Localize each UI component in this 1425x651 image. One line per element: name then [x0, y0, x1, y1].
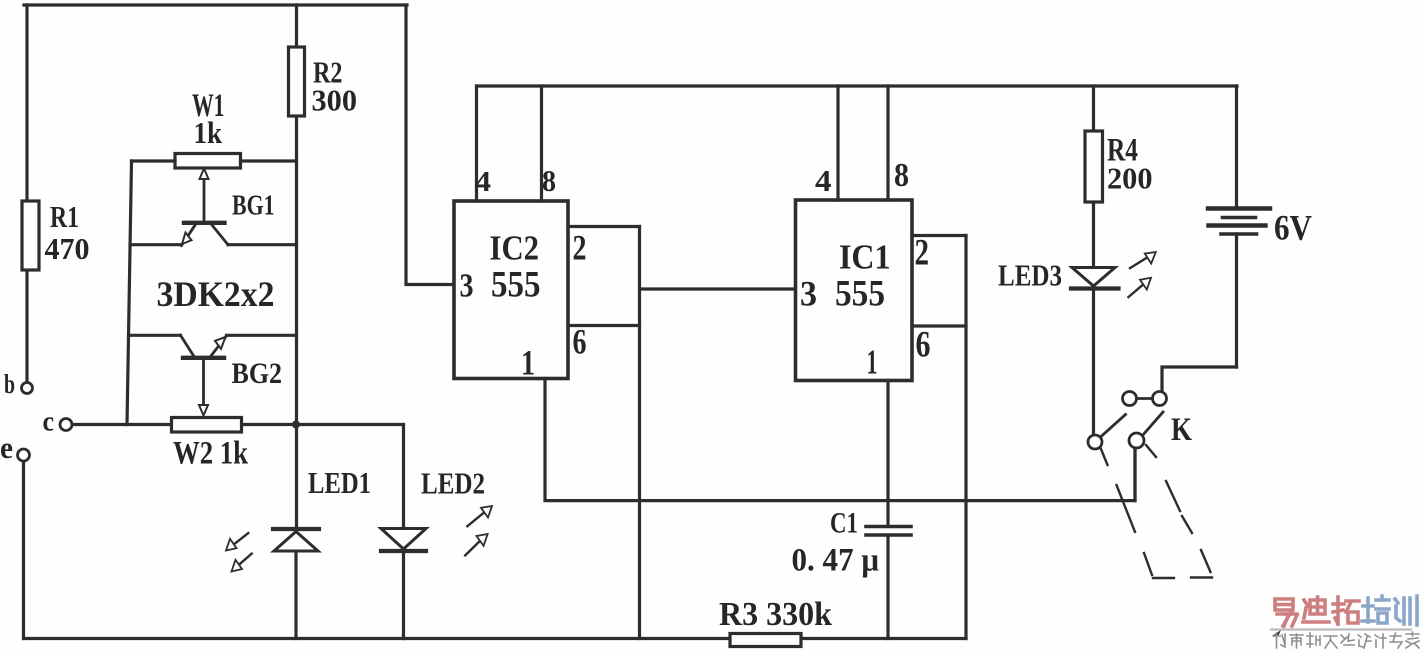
transistor BG2: [129, 335, 297, 358]
label BG2: [232, 357, 283, 390]
label R4 value: [1107, 133, 1153, 196]
IC1 pin 2: [915, 233, 930, 274]
label c: [43, 406, 55, 438]
node e: [18, 449, 30, 461]
label e: [0, 430, 13, 465]
svg-text:IC2: IC2: [490, 229, 540, 268]
watermark subtitle gray: [1273, 632, 1419, 648]
LED LED2: [381, 529, 426, 552]
label b: [4, 369, 15, 399]
wire IC1 pin 1 / C1 branch: [886, 381, 889, 639]
wire IC2 pin 6 stub: [568, 324, 640, 327]
label LED3: [998, 258, 1062, 293]
potentiometer W2: [172, 418, 242, 433]
IC2 pin 1: [521, 343, 535, 383]
label 3DK2x2: [157, 274, 275, 314]
wire battery to switch: [1162, 367, 1237, 392]
svg-text:c: c: [43, 406, 55, 438]
label BG1: [232, 191, 275, 222]
LED LED3: [1071, 268, 1119, 436]
wire e to bottom rail: [22, 462, 25, 639]
svg-text:2: 2: [573, 228, 587, 268]
wire left branch vertical (W1 left to c): [127, 161, 132, 425]
IC2 pin 2: [573, 228, 587, 268]
watermark logo peixun blue: [1362, 596, 1417, 625]
svg-text:IC1: IC1: [839, 238, 891, 277]
wire switch pole 2 down: [1133, 448, 1136, 501]
svg-text:4: 4: [475, 166, 491, 198]
label 6V battery: [1274, 208, 1312, 248]
transistor BG1: [130, 223, 297, 246]
label R3 330k: [719, 596, 832, 633]
svg-text:C1: C1: [830, 507, 858, 540]
label R1 value: [45, 199, 90, 266]
IC1 pin 6: [916, 325, 931, 366]
IC1 pin 4: [815, 163, 832, 198]
wire c horizontal: [73, 423, 404, 426]
IC2 pin 4: [475, 166, 491, 198]
switch K linkage dashed: [1101, 445, 1212, 578]
svg-text:BG2: BG2: [232, 357, 283, 390]
svg-text:LED1: LED1: [308, 465, 371, 500]
svg-text:1: 1: [521, 343, 535, 383]
label K switch: [1171, 412, 1192, 448]
label C1 value: [792, 507, 880, 579]
svg-text:R3 330k: R3 330k: [719, 596, 832, 633]
watermark logo yiditop red: [1275, 597, 1359, 626]
resistor R2: [289, 47, 305, 116]
svg-text:6V: 6V: [1274, 208, 1312, 248]
wire IC2 pin 1 to switch: [545, 379, 1135, 501]
wire IC2 pin 2 stub: [568, 225, 640, 228]
label LED2: [421, 466, 485, 501]
label R2 value: [312, 55, 358, 118]
switch K contacts: [1088, 392, 1167, 450]
svg-text:470: 470: [45, 231, 90, 266]
svg-text:2: 2: [915, 233, 930, 274]
label W1 value: [192, 88, 225, 150]
node c: [60, 419, 72, 431]
wire IC1 pin 6 stub: [912, 324, 966, 327]
wire IC1 pin 4: [836, 86, 839, 200]
svg-text:4: 4: [815, 163, 832, 198]
svg-text:555: 555: [491, 265, 541, 306]
label IC1 555: [835, 238, 891, 315]
wire IC1 pin 8: [886, 86, 889, 200]
IC1 pin 3: [800, 274, 817, 314]
svg-text:6: 6: [573, 322, 587, 362]
wire bottom rail: [24, 637, 967, 640]
LED LED1: [273, 529, 319, 551]
wire W1 terminals: [132, 159, 297, 162]
svg-text:3: 3: [460, 268, 474, 305]
svg-text:e: e: [0, 430, 13, 465]
junction dot c/W2/LED1: [292, 421, 300, 429]
IC2 pin 6: [573, 322, 587, 362]
wire IC2 pin3 branch from top rail: [406, 5, 454, 285]
label LED1: [308, 465, 371, 500]
wire IC2 pins 2-6 vertical: [638, 227, 641, 639]
op-amp IC2 555 box: [454, 201, 568, 379]
label W2 1k: [173, 436, 249, 472]
LED3 light arrows: [1128, 252, 1155, 297]
svg-text:W2 1k: W2 1k: [173, 436, 249, 472]
wire R4 branch: [1092, 86, 1095, 268]
IC2 pin 8: [542, 163, 556, 198]
wire IC2 pin 4: [475, 86, 478, 201]
battery 6V: [1208, 86, 1270, 367]
resistor R3: [730, 634, 801, 647]
wire top rail: [24, 3, 407, 6]
wire IC1 pins 2-6 vertical: [964, 236, 967, 639]
svg-text:LED2: LED2: [421, 466, 485, 501]
svg-text:8: 8: [542, 163, 556, 198]
svg-text:8: 8: [894, 157, 909, 194]
svg-text:R1: R1: [50, 199, 79, 234]
wiper arrow W2: [199, 358, 208, 416]
wiper arrow W1: [200, 169, 209, 223]
LED1 light arrows: [226, 533, 252, 572]
IC1 pin 8: [894, 157, 909, 194]
IC2 pin 3: [460, 268, 474, 305]
resistor R1: [22, 201, 39, 270]
potentiometer W1: [175, 154, 241, 169]
svg-text:1: 1: [867, 343, 878, 382]
wire IC2 pin 8: [540, 86, 543, 201]
svg-text:6: 6: [916, 325, 931, 366]
IC1 pin 1: [867, 343, 878, 382]
LED2 light arrows: [465, 506, 492, 555]
resistor R4: [1085, 131, 1103, 202]
svg-text:b: b: [4, 369, 15, 399]
wire left rail upper (b branch): [25, 5, 28, 382]
svg-text:0. 47 μ: 0. 47 μ: [792, 543, 880, 579]
svg-text:200: 200: [1107, 161, 1153, 196]
wire R2 branch vertical: [294, 5, 298, 639]
node b: [22, 383, 33, 394]
svg-text:1k: 1k: [194, 115, 223, 150]
op-amp IC1 555 box: [796, 200, 913, 381]
capacitor C1: [866, 527, 911, 536]
wire IC2 out to IC1 pin3: [640, 287, 796, 290]
wire IC1 pin 2 stub: [912, 234, 966, 237]
svg-text:LED3: LED3: [998, 258, 1062, 293]
svg-text:300: 300: [312, 83, 358, 118]
svg-text:3: 3: [800, 274, 817, 314]
wire LED2 branch: [402, 425, 405, 639]
svg-text:BG1: BG1: [232, 191, 275, 222]
wire VCC top rail: [477, 84, 1238, 87]
svg-text:555: 555: [835, 274, 885, 315]
svg-text:K: K: [1171, 412, 1192, 448]
svg-text:3DK2x2: 3DK2x2: [157, 274, 275, 314]
label IC2 555: [490, 229, 541, 306]
watermark underline: [1271, 630, 1411, 637]
